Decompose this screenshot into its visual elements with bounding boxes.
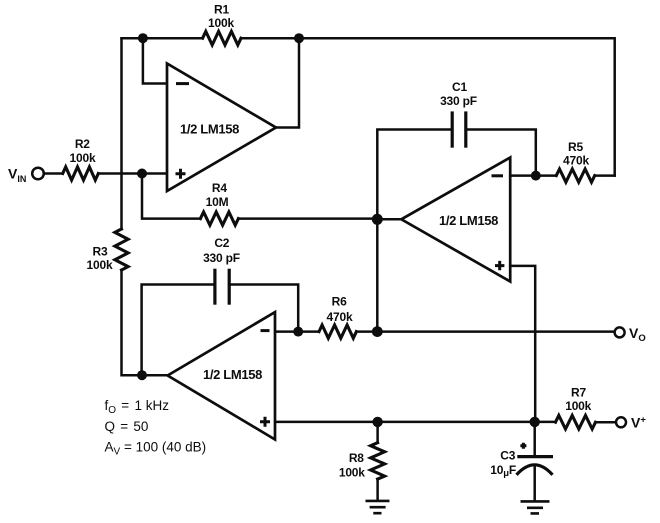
wire: top bus right segment and right-side vertical down to R5 bbox=[241, 38, 615, 175]
svg-text:C1: C1 bbox=[452, 80, 467, 94]
wire: U2 non-inverting input right and down to bias node J bbox=[510, 266, 535, 422]
svg-text:R6: R6 bbox=[332, 295, 347, 309]
op-amp U3 bbox=[168, 312, 275, 439]
node I: bias divider R8 bbox=[372, 417, 382, 427]
input terminal VIN bbox=[8, 166, 44, 185]
resistor R2 bbox=[63, 137, 99, 180]
resistor R3 bbox=[87, 229, 129, 272]
svg-text:10μF: 10μF bbox=[490, 463, 516, 479]
wire: U3 non-inverting input bias rail bbox=[275, 421, 555, 424]
op-amp U2 bbox=[401, 158, 510, 282]
svg-text:C2: C2 bbox=[214, 236, 229, 250]
wire: U3 inverting input to node F bbox=[275, 330, 319, 333]
svg-text:R1: R1 bbox=[214, 3, 229, 17]
wire: node D to R5 bbox=[536, 174, 557, 177]
wire: U2 output node E down to VO line bbox=[376, 219, 379, 331]
svg-text:R2: R2 bbox=[75, 137, 90, 151]
svg-text:Q = 50: Q = 50 bbox=[105, 419, 149, 434]
node F: U3 inverting input bbox=[293, 327, 303, 337]
resistor R8 bbox=[339, 443, 385, 480]
ground (R8) bbox=[366, 501, 390, 513]
wire: C1 left leg from U2 output node up and right bbox=[377, 130, 452, 220]
node D: U2 inverting input bbox=[531, 171, 541, 181]
wire: node I down to R8 bbox=[376, 422, 379, 443]
resistor R7 bbox=[556, 386, 596, 429]
wire: from node A down and right into U1 inverting input bbox=[143, 38, 167, 83]
wire: top feedback bus left segment bbox=[122, 37, 203, 40]
wire: left vertical below R3 to op-amp U3 output bbox=[122, 270, 168, 375]
svg-text:330 pF: 330 pF bbox=[203, 251, 240, 265]
op-amp U1 bbox=[167, 64, 276, 192]
capacitor C3 bbox=[490, 443, 553, 479]
node B: R1 right / U1 output bbox=[294, 33, 304, 43]
wire: C3 to ground bbox=[533, 466, 536, 500]
svg-text:100k: 100k bbox=[208, 16, 234, 30]
node C: input summing node bbox=[137, 169, 147, 179]
svg-text:100k: 100k bbox=[87, 258, 113, 272]
wire: C2 left leg from U3 output node up bbox=[142, 285, 215, 376]
capacitor C2 bbox=[203, 236, 240, 305]
svg-text:R3: R3 bbox=[93, 245, 108, 259]
wire: U2 inverting input to node D bbox=[510, 174, 536, 177]
ground (C3) bbox=[521, 501, 550, 513]
node H: U3 output bbox=[137, 370, 147, 380]
node J: bias divider C3 bbox=[530, 417, 540, 427]
wire: R4 to U2 output node bbox=[238, 217, 377, 220]
wire: R6 to node G and VO output line bbox=[356, 330, 614, 333]
wire: left vertical from top-left corner down to R3 bbox=[120, 38, 123, 229]
svg-text:1/2 LM158: 1/2 LM158 bbox=[203, 367, 262, 382]
wire: from node C down and right to R4 bbox=[142, 174, 200, 219]
svg-text:100k: 100k bbox=[339, 466, 365, 480]
svg-text:100k: 100k bbox=[70, 151, 96, 165]
svg-text:10M: 10M bbox=[206, 195, 229, 209]
svg-text:1/2 LM158: 1/2 LM158 bbox=[180, 122, 239, 137]
wire: C2 right leg down to U3 inverting node bbox=[229, 285, 298, 332]
svg-text:R5: R5 bbox=[568, 140, 583, 154]
node A: R1 left / U1 inverting bbox=[138, 33, 148, 43]
wire: VIN terminal to R2 bbox=[44, 172, 63, 175]
svg-text:C3: C3 bbox=[500, 448, 516, 462]
svg-text:330 pF: 330 pF bbox=[440, 94, 477, 108]
svg-text:R8: R8 bbox=[349, 451, 364, 465]
svg-text:1/2 LM158: 1/2 LM158 bbox=[439, 213, 498, 228]
resistor R1 bbox=[203, 3, 241, 45]
resistor R4 bbox=[200, 181, 238, 225]
svg-text:470k: 470k bbox=[563, 154, 589, 168]
output terminal VO bbox=[615, 325, 646, 344]
wire: R7 to V+ terminal bbox=[596, 421, 617, 424]
node G: VO tap bbox=[372, 326, 383, 337]
wire: U1 output to node B vertical bbox=[276, 38, 299, 127]
wire: U2 output tip to node E bbox=[377, 218, 402, 221]
capacitor C1 bbox=[440, 80, 477, 148]
wire: R5 to right-side vertical bbox=[595, 174, 615, 177]
svg-text:100k: 100k bbox=[565, 399, 591, 413]
svg-text:470k: 470k bbox=[327, 310, 353, 324]
wire: C1 right leg to U2 inverting node bbox=[466, 130, 536, 176]
svg-text:R4: R4 bbox=[212, 181, 227, 195]
wire: R2 to U1 non-inverting input bbox=[98, 172, 167, 175]
wire: R8 to ground bbox=[376, 479, 379, 500]
wire: node J down to C3 bbox=[533, 422, 536, 457]
svg-text:R7: R7 bbox=[571, 386, 586, 400]
resistor R5 bbox=[556, 140, 594, 182]
resistor R6 bbox=[319, 295, 356, 339]
node E: U2 output bbox=[372, 214, 383, 225]
terminal V+ bbox=[616, 415, 646, 431]
